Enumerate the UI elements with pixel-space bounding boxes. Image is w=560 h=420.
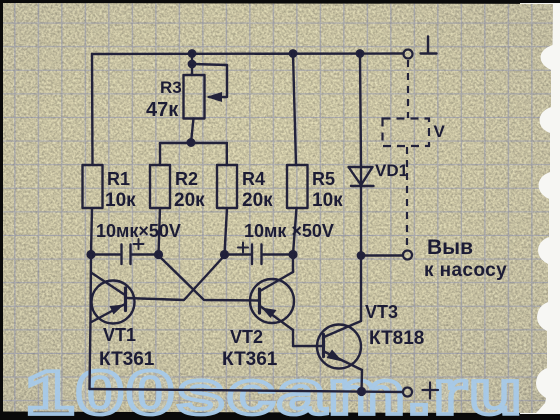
voltmeter V (dashed box) (383, 119, 430, 147)
node top rail R5 branch (290, 50, 296, 56)
wire left rail to bottom (90, 255, 92, 390)
wire VD1 cathode down (360, 186, 362, 256)
wire R3 top to rail (191, 54, 193, 65)
svg-text:Выв: Выв (427, 236, 473, 259)
transistor VT1 base bar (124, 288, 127, 311)
wire VT1 base to C2 node (127, 255, 226, 300)
svg-text:R3: R3 (160, 78, 182, 97)
resistor R5 (287, 165, 308, 208)
transistor VT3 base bar (322, 335, 325, 357)
resistor R1 (83, 165, 103, 208)
capacitor C2 plates (252, 245, 262, 265)
svg-text:VT1: VT1 (103, 325, 136, 345)
wire VT2 emitter to VT3 base (293, 330, 323, 346)
svg-text:R2: R2 (175, 169, 198, 189)
wire junction to pump terminal (361, 254, 403, 256)
wire R3 bottom (191, 119, 194, 143)
svg-text:VT2: VT2 (230, 327, 263, 347)
svg-text:R5: R5 (312, 169, 335, 189)
wire R2 bottom (159, 208, 161, 254)
svg-text:КТ361: КТ361 (222, 349, 278, 370)
wire branch to R2 and R4 (160, 143, 227, 165)
transistor VT2 body (250, 279, 294, 323)
svg-text:КТ361: КТ361 (99, 349, 155, 370)
node R3 wiper junction (189, 61, 195, 67)
svg-text:КТ818: КТ818 (369, 328, 424, 349)
node top rail VD1 branch (357, 50, 363, 56)
capacitor C2 right wire (263, 253, 293, 255)
potentiometer R3 body (184, 64, 205, 119)
svg-text:20к: 20к (242, 190, 273, 211)
transistor VT1 emitter arrow (110, 305, 125, 315)
capacitor C2 left wire (225, 253, 252, 255)
svg-text:VD1: VD1 (375, 161, 408, 180)
transistor VT3 emitter lead (324, 352, 362, 371)
wire VT2 base to C1 node (159, 256, 260, 301)
label plus bottom (423, 383, 439, 399)
svg-text:к насосу: к насосу (424, 260, 507, 281)
wire VT3 collector up (360, 256, 362, 322)
transistor VT1 collector lead (91, 273, 125, 296)
wire bottom rail (90, 389, 403, 392)
transistor VT2 emitter lead (260, 306, 293, 330)
transistor VT2 emitter arrow (262, 308, 277, 319)
svg-text:R1: R1 (107, 169, 130, 189)
svg-text:10к: 10к (105, 190, 136, 211)
wire R4 bottom (225, 208, 228, 254)
resistor R2 (150, 165, 170, 208)
wire R3 wiper arm (192, 64, 227, 97)
svg-text:47к: 47к (146, 99, 179, 121)
resistor R4 (217, 165, 237, 208)
transistor VT3 emitter arrow (327, 350, 343, 362)
node pump output junction (358, 252, 364, 258)
wire left rail down to R1 (91, 54, 94, 165)
svg-text:R4: R4 (242, 169, 265, 189)
terminal minus (top right) (404, 50, 413, 59)
svg-text:10мк×50V: 10мк×50V (96, 221, 181, 241)
wire dashed: voltmeter to pump output terminal (406, 147, 408, 249)
svg-text:VT3: VT3 (365, 302, 398, 322)
capacitor C1 right wire (132, 253, 155, 255)
transistor VT1 body (92, 281, 135, 324)
node C2 R4 junction (221, 251, 228, 258)
capacitor C1 plates (122, 245, 131, 265)
diode VD1 anode wire (360, 54, 361, 167)
transistor VT2 collector lead (260, 272, 293, 291)
capacitor C1 plus sign (134, 239, 144, 249)
node VT3 emitter junction (358, 388, 365, 395)
svg-text:V: V (434, 122, 446, 141)
wire VT3 emitter to bottom rail (360, 370, 363, 392)
node C1 R1 junction (88, 251, 95, 258)
wire top rail (92, 52, 403, 55)
diode VD1 (349, 167, 374, 186)
transistor VT3 collector lead (324, 321, 361, 337)
node C2 R5 junction (290, 251, 297, 258)
node top rail R3 branch (189, 50, 195, 56)
ground symbol (421, 37, 437, 54)
R3 wiper arrowhead (206, 92, 222, 102)
svg-text:10мк ×50V: 10мк ×50V (244, 221, 334, 241)
wire R5 top to rail (293, 54, 296, 166)
wire R1 bottom (91, 208, 92, 254)
svg-text:20к: 20к (174, 190, 205, 211)
svg-text:10к: 10к (312, 190, 343, 211)
transistor VT3 body (317, 325, 361, 369)
wire dashed: minus terminal to voltmeter (407, 60, 409, 118)
node C1 R2 junction (155, 251, 162, 258)
node R2/R4 branch junction (188, 139, 195, 146)
transistor VT2 base bar (258, 289, 261, 313)
wire R5 bottom (293, 208, 297, 254)
capacitor C2 plus sign (238, 243, 248, 253)
terminal plus (bottom right) (403, 388, 412, 397)
transistor VT1 emitter lead (91, 304, 126, 323)
wire VT2 collector up (292, 255, 294, 273)
capacitor C1 left wire (91, 253, 120, 255)
terminal pump output (403, 251, 412, 260)
